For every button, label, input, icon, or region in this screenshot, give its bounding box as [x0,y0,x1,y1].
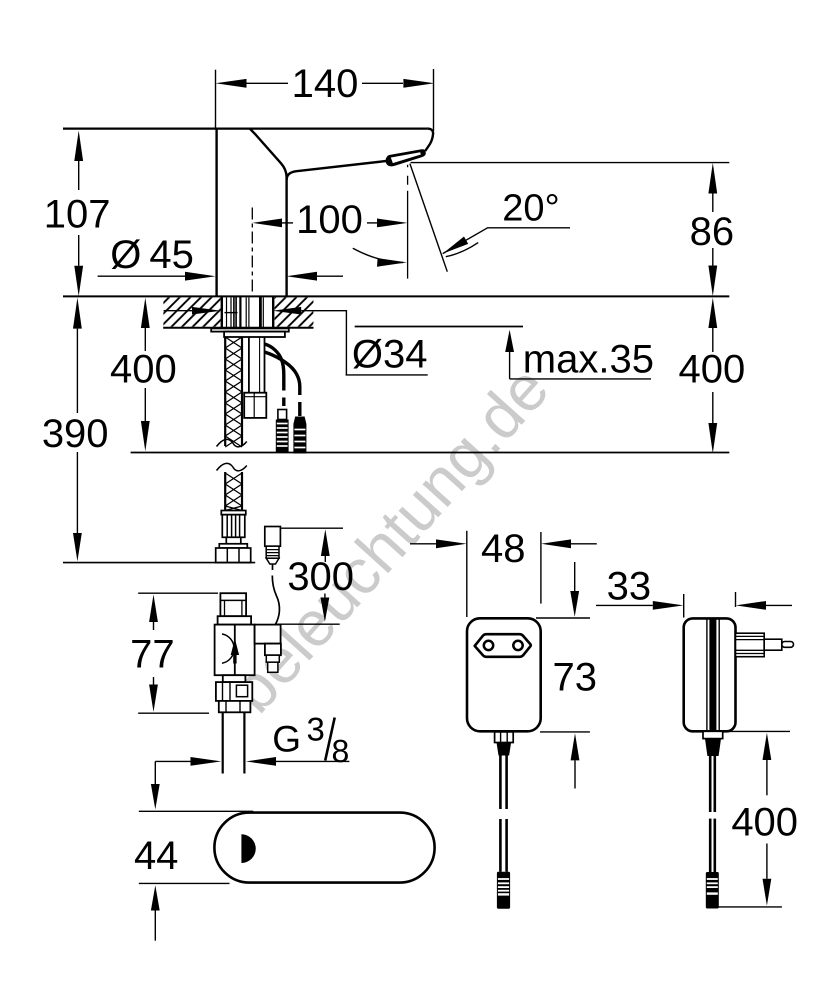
shank lower box [244,393,266,418]
front cord grommet [495,732,514,756]
hose coupling nut [216,544,251,563]
side cord grommet [703,731,723,756]
sensor window [241,834,255,863]
dimension 140 [216,69,434,131]
power supply front body [467,618,541,731]
outlet centre dash-dot extension line [407,165,409,279]
svg-text:77: 77 [130,633,175,677]
dimension 77 [138,593,218,713]
braided supply hose upper segment [217,337,247,447]
valve outlet fitting [219,701,251,712]
dimension O34 arrows [164,311,347,375]
power cable inline plug [265,527,281,565]
plug wire to valve [272,564,279,625]
dimension 100 [252,208,377,297]
svg-text:G: G [272,718,301,759]
angle arc right tail [446,243,478,257]
44 top reference line [139,810,253,812]
mounting washer plates [211,328,289,337]
euro plug pin [782,642,794,648]
side cord [710,756,715,872]
side body dark stripe [707,619,719,731]
svg-text:390: 390 [42,412,109,456]
44 bottom reference line [139,882,230,884]
shank inner tube [249,337,265,393]
sensor cable (left) [265,344,284,391]
faucet body outline [217,129,434,297]
dimension 390 [76,329,78,533]
faucet left edge [215,129,217,297]
dimension 44 top arrow [151,784,160,810]
svg-text:73: 73 [553,656,598,700]
solenoid valve lower nut [216,682,252,701]
deck top line [63,295,729,297]
dimension 400 right (below deck) [712,328,714,423]
dimension 73 [536,562,590,789]
svg-text:400: 400 [731,800,798,844]
svg-text:140: 140 [292,62,359,106]
angle arc left with arrow [353,248,403,262]
svg-text:20°: 20° [502,188,559,230]
solenoid valve top fitting [220,593,246,616]
svg-text:max.35: max.35 [523,337,654,381]
svg-text:33: 33 [607,564,652,608]
euro plug base [736,633,765,657]
front cord connector [497,872,510,909]
hose break wave [217,439,247,447]
deck hatching left [163,298,220,327]
dimension 400 bottom right [714,731,790,907]
faucet front slant [250,129,287,297]
faucet top line [63,128,427,130]
dimension 33 [596,592,792,618]
front cord [500,756,506,872]
reference line 400 below deck [131,452,730,454]
dimension 48 [410,531,597,617]
svg-text:107: 107 [44,192,111,236]
outlet pipe G3/8 [223,712,245,773]
svg-text:44: 44 [134,834,179,878]
20 degree leader with arrow [443,228,570,254]
svg-text:400: 400 [679,347,746,391]
svg-text:3: 3 [307,711,325,748]
svg-text:400: 400 [110,347,177,391]
dimension 86 [411,163,730,266]
svg-text:48: 48 [481,527,526,571]
power cable (right) [265,352,300,395]
dimension 107 [78,161,80,266]
20 degree slant line [410,164,447,272]
solenoid valve body [215,625,255,676]
sensor cable connector (left) [276,410,289,454]
hose end fitting [221,511,246,544]
390 reference line [63,562,255,564]
faucet shank through deck [222,296,273,327]
braided hose lower segment [217,463,247,510]
euro socket outline [475,634,531,657]
faucet under-spout line [287,161,387,180]
body centre dash-dot line [251,208,253,297]
svg-text:100: 100 [296,198,363,242]
aerator (spout outlet) [386,149,426,166]
dimension G3/8 arrows [155,761,349,784]
socket hole right [513,641,522,650]
power supply side body [684,618,736,731]
max.35 arrow [505,330,514,352]
svg-text:Ø 45: Ø 45 [110,233,194,277]
solenoid valve lower neck [223,675,246,682]
dimension 44 bottom arrow [151,885,160,910]
svg-text:Ø34: Ø34 [352,333,428,377]
max35 level line [355,326,523,328]
svg-text:8: 8 [332,733,350,769]
valve flow arrow [231,639,239,656]
dimension 400 left [144,328,146,421]
deck bottom line [163,327,313,329]
sensor unit oval [214,813,434,883]
dimension O45 [98,275,343,277]
euro plug snout [764,639,782,650]
dimension 300 [275,528,343,624]
svg-text:86: 86 [690,210,735,254]
solenoid valve top plate [218,616,252,624]
svg-text:300: 300 [287,555,354,599]
solenoid valve side connector [255,625,281,673]
outlet level extension line [411,162,730,164]
power cable connector (right) [293,417,306,454]
side cord connector [706,872,719,909]
deck hatching right [275,298,314,327]
socket hole left [484,641,493,650]
faucet top-right corner and right edge [425,129,433,151]
